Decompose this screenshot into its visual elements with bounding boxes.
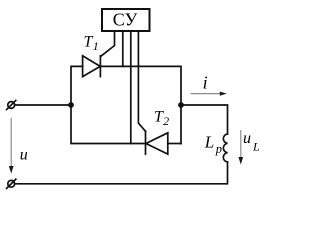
svg-text:L: L bbox=[204, 133, 214, 152]
svg-text:u: u bbox=[20, 146, 28, 163]
svg-text:L: L bbox=[252, 139, 260, 153]
svg-text:p: p bbox=[215, 142, 222, 156]
svg-text:СУ: СУ bbox=[113, 10, 138, 30]
svg-text:2: 2 bbox=[163, 114, 169, 128]
svg-text:1: 1 bbox=[93, 39, 99, 53]
svg-text:i: i bbox=[203, 72, 208, 92]
svg-text:u: u bbox=[243, 130, 251, 147]
